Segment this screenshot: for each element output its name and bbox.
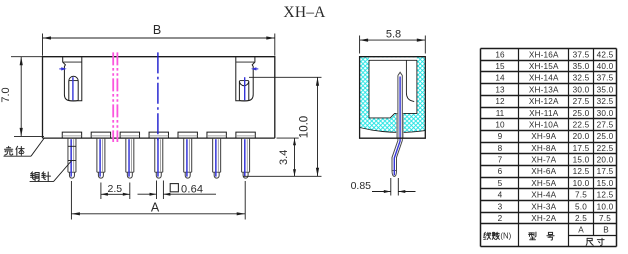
svg-text:B: B [153, 23, 161, 37]
svg-text:(N): (N) [500, 232, 511, 241]
svg-text:7: 7 [498, 156, 503, 165]
svg-text:XH-3A: XH-3A [531, 202, 556, 211]
svg-text:30.0: 30.0 [597, 109, 614, 118]
bottom boss tab 1 [62, 132, 81, 138]
bottom boss tab 3 [120, 132, 139, 138]
svg-text:2.5: 2.5 [575, 214, 587, 223]
bottom boss tab 2 [91, 132, 110, 138]
side view hatched body [360, 57, 426, 133]
label 铜针 copper pin [31, 172, 40, 181]
dimension 7.0 [11, 56, 43, 58]
svg-text:10.0: 10.0 [597, 202, 614, 211]
svg-text:30.0: 30.0 [573, 85, 590, 94]
svg-text:7.0: 7.0 [0, 87, 12, 102]
svg-text:2: 2 [498, 214, 503, 223]
front view body outline [43, 57, 275, 138]
side view cavity [369, 57, 417, 118]
side view pin [392, 72, 402, 176]
label shell 壳体 [4, 155, 32, 157]
svg-text:3.4: 3.4 [278, 150, 290, 165]
svg-text:3: 3 [498, 202, 503, 211]
svg-text:32.5: 32.5 [597, 97, 614, 106]
svg-text:XH-13A: XH-13A [529, 85, 559, 94]
pin channel [397, 113, 404, 137]
svg-text:16: 16 [495, 50, 505, 59]
svg-text:37.5: 37.5 [597, 74, 614, 83]
svg-text:12.5: 12.5 [597, 191, 614, 200]
pin 1 crimp marks [68, 145, 76, 147]
svg-text:5.8: 5.8 [386, 28, 401, 40]
magenta phantom lines [112, 52, 114, 142]
svg-text:20.0: 20.0 [573, 132, 590, 141]
svg-text:A: A [151, 201, 160, 215]
table grid [481, 48, 617, 50]
svg-text:8: 8 [498, 144, 503, 153]
left slot with contact [63, 57, 82, 101]
dimension 0.64 square [156, 181, 158, 200]
svg-text:XH-9A: XH-9A [531, 132, 556, 141]
table header 尺寸 [586, 238, 593, 245]
svg-text:6: 6 [498, 167, 503, 176]
svg-text:27.5: 27.5 [573, 97, 590, 106]
svg-text:0.64: 0.64 [181, 183, 203, 195]
side view bottom white strip and curve [360, 128, 426, 139]
pin 1 [67, 138, 69, 172]
svg-text:35.0: 35.0 [597, 85, 614, 94]
svg-text:12: 12 [495, 97, 505, 106]
svg-text:25.0: 25.0 [597, 132, 614, 141]
svg-text:22.5: 22.5 [597, 144, 614, 153]
bottom boss tab 7 [236, 132, 255, 138]
table header 线数(N) [484, 232, 491, 239]
svg-text:XH–A: XH–A [283, 4, 326, 21]
front view body bottom edge [43, 137, 275, 139]
bottom boss tab 6 [207, 132, 226, 138]
dimension 2.5 [100, 183, 102, 200]
label copper pin 铜针 leader [30, 181, 54, 183]
svg-text:12.5: 12.5 [573, 167, 590, 176]
svg-text:XH-16A: XH-16A [529, 50, 559, 59]
dimension 5.8 [359, 36, 361, 54]
svg-text:42.5: 42.5 [597, 50, 614, 59]
pin 4 [154, 138, 156, 172]
svg-text:37.5: 37.5 [573, 50, 590, 59]
svg-text:XH-2A: XH-2A [531, 214, 556, 223]
svg-text:27.5: 27.5 [597, 120, 614, 129]
svg-text:25.0: 25.0 [573, 109, 590, 118]
svg-text:5: 5 [498, 179, 503, 188]
svg-text:40.0: 40.0 [597, 62, 614, 71]
dimension B [42, 34, 44, 56]
svg-text:20.0: 20.0 [597, 156, 614, 165]
svg-text:10.0: 10.0 [299, 116, 311, 138]
dimension A [70, 181, 72, 220]
svg-text:XH-4A: XH-4A [531, 191, 556, 200]
right slot with contact [236, 57, 255, 101]
svg-text:10.0: 10.0 [573, 179, 590, 188]
svg-text:15.0: 15.0 [597, 179, 614, 188]
pin 5 [183, 138, 185, 172]
svg-text:10: 10 [495, 120, 505, 129]
svg-text:XH-8A: XH-8A [531, 144, 556, 153]
svg-text:14: 14 [495, 74, 505, 83]
svg-text:XH-14A: XH-14A [529, 74, 559, 83]
svg-text:XH-5A: XH-5A [531, 179, 556, 188]
bottom boss tab 5 [178, 132, 197, 138]
latch hook [406, 60, 414, 101]
svg-text:7.5: 7.5 [599, 214, 611, 223]
table header 型号 [529, 232, 536, 240]
svg-text:15.0: 15.0 [573, 156, 590, 165]
svg-text:32.5: 32.5 [573, 74, 590, 83]
svg-text:35.0: 35.0 [573, 62, 590, 71]
svg-text:B: B [603, 225, 609, 234]
pin 3 [125, 138, 127, 172]
svg-text:A: A [578, 225, 584, 234]
svg-text:XH-15A: XH-15A [529, 62, 559, 71]
svg-text:9: 9 [498, 132, 503, 141]
cavity top line [369, 59, 417, 61]
svg-text:XH-7A: XH-7A [531, 156, 556, 165]
bottom boss tab 4 [149, 132, 168, 138]
svg-text:XH-10A: XH-10A [529, 120, 559, 129]
svg-text:15: 15 [495, 62, 505, 71]
dimension 3.4 [277, 137, 299, 139]
pin 2 [96, 138, 98, 172]
dimension 10.0 [249, 76, 322, 78]
svg-text:13: 13 [495, 85, 505, 94]
svg-text:XH-6A: XH-6A [531, 167, 556, 176]
pin 6 [212, 138, 214, 172]
label 壳体 shell [4, 146, 12, 155]
pin 7 [241, 138, 243, 172]
svg-text:11: 11 [496, 109, 505, 118]
svg-text:7.5: 7.5 [575, 191, 587, 200]
svg-text:17.5: 17.5 [573, 144, 590, 153]
svg-text:0.85: 0.85 [351, 180, 372, 192]
dimension 0.85 [390, 178, 392, 196]
svg-text:17.5: 17.5 [597, 167, 614, 176]
svg-text:XH-11A: XH-11A [529, 109, 559, 118]
side view outer outline [360, 57, 426, 139]
svg-text:4: 4 [498, 191, 503, 200]
svg-text:22.5: 22.5 [573, 120, 590, 129]
svg-text:5.0: 5.0 [575, 202, 587, 211]
blue centerline [157, 52, 159, 141]
svg-text:XH-12A: XH-12A [529, 97, 559, 106]
svg-text:2.5: 2.5 [107, 183, 122, 195]
